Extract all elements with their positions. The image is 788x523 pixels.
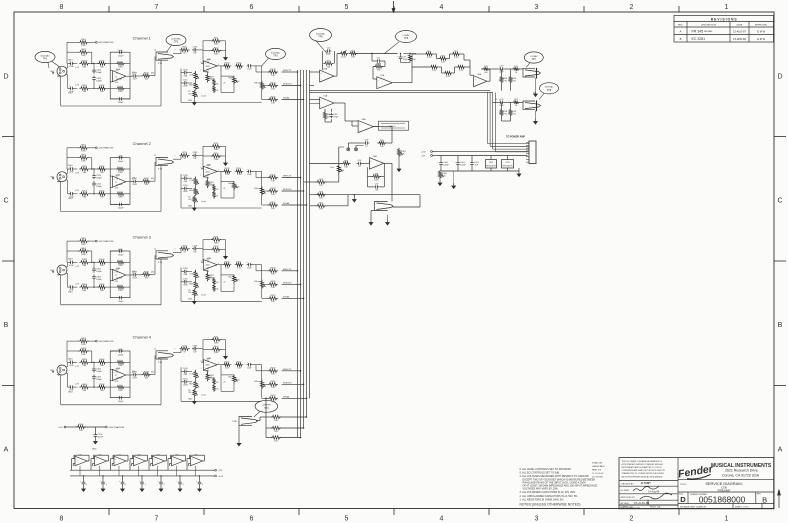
resistor R103	[79, 62, 89, 65]
svg-text:1: 1	[66, 177, 67, 179]
capacitor C103	[93, 68, 95, 70]
resistor R406	[97, 385, 106, 388]
wire	[453, 72, 455, 74]
svg-text:2.2K: 2.2K	[427, 57, 432, 59]
svg-text:Effects: Effects	[255, 81, 261, 84]
svg-text:.1uF: .1uF	[474, 165, 479, 167]
capacitor C408	[192, 348, 194, 350]
wire	[126, 374, 133, 376]
wire	[261, 279, 263, 281]
resistor R205	[97, 167, 106, 170]
svg-text:Level: Level	[201, 201, 206, 203]
wire	[110, 286, 116, 288]
svg-text:10uF: 10uF	[132, 277, 137, 279]
phantom terminal	[95, 147, 97, 149]
svg-text:47pF: 47pF	[326, 54, 331, 56]
svg-text:R404: R404	[82, 384, 88, 386]
resistor R310	[180, 247, 190, 250]
junction	[265, 398, 267, 400]
wire	[67, 157, 79, 159]
resistor R54B	[512, 67, 520, 70]
ground	[94, 438, 96, 441]
svg-text:100: 100	[145, 79, 149, 81]
svg-text:(0V): (0V)	[132, 72, 136, 74]
svg-text:APPROVED BY:: APPROVED BY:	[621, 496, 636, 499]
wire	[66, 173, 67, 175]
wire	[74, 63, 77, 65]
ground	[122, 486, 124, 489]
svg-text:47uF: 47uF	[69, 265, 74, 267]
svg-text:TP8: TP8	[547, 89, 552, 92]
svg-text:6.8K: 6.8K	[81, 161, 86, 163]
wire	[74, 261, 77, 263]
svg-text:GND2: GND2	[68, 391, 73, 393]
svg-text:6.8K: 6.8K	[81, 354, 86, 356]
resistor R55B	[482, 67, 490, 70]
resistor R124	[268, 84, 278, 87]
ground	[193, 398, 195, 401]
svg-text:6.8K: 6.8K	[118, 197, 123, 199]
capacitor C201	[69, 168, 71, 170]
svg-text:HIGH: HIGH	[189, 283, 194, 285]
svg-text:10K: 10K	[271, 88, 275, 90]
svg-text:.0039: .0039	[183, 86, 189, 88]
svg-text:100: 100	[145, 277, 149, 279]
resistor R50	[323, 62, 333, 65]
op-amp U21	[95, 456, 107, 466]
svg-text:R124: R124	[271, 82, 277, 84]
svg-text:PREAMP: PREAMP	[718, 489, 731, 493]
wire	[66, 426, 77, 428]
wire	[181, 271, 182, 273]
svg-text:RELEASE DATE: 28-APR-89: RELEASE DATE: 28-APR-89	[680, 505, 707, 508]
resistor R407	[116, 361, 125, 364]
svg-text:GND1: GND1	[68, 358, 73, 360]
ground	[387, 220, 389, 223]
svg-text:APPROVED: APPROVED	[755, 24, 768, 27]
wire	[195, 71, 197, 73]
wire	[535, 78, 537, 91]
svg-text:Channel 3: Channel 3	[133, 234, 152, 239]
svg-text:100pF: 100pF	[96, 379, 102, 381]
input op-amp box	[110, 158, 130, 205]
svg-text:2: 2	[58, 67, 59, 69]
svg-text:Channel 1: Channel 1	[133, 36, 152, 41]
svg-text:THIS DOCUMENT CONTAINS INFORMA: THIS DOCUMENT CONTAINS INFORMATION OF	[622, 460, 663, 463]
svg-text:1: 1	[725, 4, 729, 11]
svg-text:GND1: GND1	[68, 258, 73, 260]
resistor R312	[211, 248, 221, 251]
pot R100	[438, 170, 441, 179]
input op-amp box	[110, 251, 130, 298]
svg-text:TP2: TP2	[174, 41, 179, 44]
svg-text:2: 2	[201, 175, 202, 177]
resistor R412	[211, 348, 221, 351]
wire	[362, 163, 369, 165]
svg-text:+48V PHANTOM: +48V PHANTOM	[98, 41, 114, 44]
svg-text:10uF: 10uF	[247, 174, 252, 176]
pot R216 HIGH	[194, 187, 197, 196]
svg-text:10K: 10K	[271, 287, 275, 289]
svg-text:6.8K: 6.8K	[118, 66, 123, 68]
svg-text:TP5: TP5	[318, 36, 323, 39]
svg-text:Rev: Rev	[331, 167, 334, 169]
svg-text:4: 4	[440, 4, 444, 11]
svg-text:10K: 10K	[188, 292, 192, 294]
svg-text:680: 680	[83, 265, 87, 267]
svg-text:(0V): (0V)	[132, 271, 136, 273]
svg-text:R202: R202	[81, 155, 87, 157]
svg-text:R201: R201	[81, 145, 87, 147]
svg-text:+: +	[76, 459, 78, 461]
svg-text:.1: .1	[125, 484, 128, 486]
svg-text:C110: C110	[183, 80, 189, 82]
resistor R202	[78, 156, 88, 159]
svg-text:100pF: 100pF	[96, 271, 102, 273]
svg-text:(+7V): (+7V)	[75, 266, 79, 268]
power connector P1	[529, 141, 536, 164]
svg-text:1uF: 1uF	[193, 53, 197, 55]
wire	[72, 458, 76, 460]
capacitor C104	[93, 76, 95, 78]
wire	[93, 64, 95, 69]
svg-text:SHEET: 1 OF 2: SHEET: 1 OF 2	[735, 506, 750, 508]
wire	[252, 65, 261, 67]
wire	[202, 240, 204, 249]
resistor R405	[97, 361, 106, 364]
svg-text:R110: R110	[182, 47, 188, 49]
wire	[181, 102, 262, 104]
capacitor C306	[118, 297, 120, 299]
capacitor C302	[69, 286, 71, 288]
wire	[221, 274, 234, 276]
resistor R56	[438, 57, 447, 60]
pot R316 HIGH	[194, 280, 197, 289]
resistor R105	[97, 62, 106, 65]
capacitor C109	[182, 72, 184, 74]
svg-text:Fender: Fender	[677, 463, 714, 480]
op-amp U4B	[204, 360, 218, 370]
wire	[252, 264, 261, 266]
svg-text:.001: .001	[375, 190, 380, 192]
svg-text:SIGNAL GND: SIGNAL GND	[592, 462, 603, 465]
svg-text:R311: R311	[214, 236, 220, 238]
wire	[262, 297, 270, 299]
resistor R411	[211, 338, 221, 341]
wire	[173, 158, 181, 160]
svg-text:13-AUG-87: 13-AUG-87	[733, 29, 747, 33]
junction dots	[93, 63, 94, 64]
svg-text:220K: 220K	[214, 252, 219, 254]
pot R221 Mid	[232, 181, 235, 190]
insert jack J1B	[156, 52, 168, 60]
svg-text:2: 2	[201, 368, 202, 370]
output jack J14	[375, 202, 388, 211]
wire	[126, 181, 133, 183]
op-amp U6A	[474, 76, 487, 87]
resistor R303	[79, 261, 89, 264]
svg-text:R310: R310	[182, 246, 188, 248]
capacitor C125	[179, 480, 181, 482]
ground	[453, 183, 455, 186]
svg-text:R61: R61	[514, 99, 519, 101]
svg-text:+: +	[192, 459, 194, 461]
resistor R219	[212, 190, 215, 198]
svg-text:100: 100	[145, 377, 149, 379]
svg-text:1uF: 1uF	[193, 158, 197, 160]
svg-text:1K: 1K	[216, 90, 219, 92]
svg-text:100pF: 100pF	[96, 371, 102, 373]
svg-text:3: 3	[201, 361, 202, 363]
svg-text:C409: C409	[183, 368, 189, 370]
wire	[252, 364, 261, 366]
svg-text:100pF: 100pF	[118, 354, 124, 356]
svg-text:+: +	[92, 434, 94, 436]
svg-text:1K: 1K	[183, 252, 186, 254]
junction dots	[93, 262, 94, 263]
headphone jack J9	[523, 68, 535, 77]
svg-text:R101: R101	[81, 39, 87, 41]
svg-text:C208: C208	[193, 152, 199, 154]
svg-text:100pF: 100pF	[118, 208, 124, 210]
power terminals	[431, 151, 433, 153]
wire	[151, 75, 155, 77]
resistor R61B	[512, 101, 520, 104]
svg-text:+48V PHANTOM: +48V PHANTOM	[98, 240, 114, 243]
wire	[262, 204, 270, 206]
junction dots	[93, 362, 94, 363]
resistor R408	[116, 385, 125, 388]
svg-text:L6: L6	[154, 155, 156, 157]
capacitor C303	[93, 267, 95, 269]
monitor sum line	[310, 194, 421, 196]
svg-text:CHASSIS BACK: CHASSIS BACK	[592, 465, 605, 468]
voltage regulator U10	[486, 160, 497, 169]
svg-text:Mid: Mid	[229, 276, 232, 278]
svg-text:1. ALL RESISTORS IN OHMS 1/4W,: 1. ALL RESISTORS IN OHMS 1/4W, 5%.	[520, 498, 565, 501]
wire	[187, 458, 191, 460]
svg-text:LOW: LOW	[190, 373, 194, 375]
svg-text:3: 3	[58, 275, 59, 277]
capacitor C124	[160, 480, 162, 482]
pot R222 Effects	[260, 186, 263, 195]
wire	[356, 53, 398, 55]
svg-text:1.5K: 1.5K	[225, 69, 230, 71]
svg-text:Corona, CA 91720 USA: Corona, CA 91720 USA	[722, 474, 760, 478]
svg-text:Level: Level	[201, 96, 206, 98]
svg-text:270: 270	[504, 80, 508, 82]
svg-text:TITLE:: TITLE:	[680, 484, 687, 486]
svg-text:6.8K: 6.8K	[118, 365, 123, 367]
capacitor C202	[69, 193, 71, 195]
ground	[199, 486, 201, 489]
wire	[107, 168, 111, 170]
svg-text:VOLTAGES MAY VARY BY 20%.: VOLTAGES MAY VARY BY 20%.	[523, 488, 559, 491]
phantom terminal	[95, 240, 97, 242]
capacitor C121	[102, 480, 104, 482]
svg-text:3: 3	[201, 62, 202, 64]
capacitor C407	[132, 374, 134, 376]
svg-text:+15V: +15V	[421, 152, 426, 154]
wire	[107, 63, 111, 65]
wire	[90, 361, 99, 363]
svg-text:.1: .1	[182, 484, 185, 486]
svg-text:TP4: TP4	[264, 407, 269, 410]
svg-text:R203: R203	[82, 166, 88, 168]
svg-text:+48V PHANTOM: +48V PHANTOM	[108, 426, 124, 429]
svg-text:220K: 220K	[214, 242, 219, 244]
svg-text:100pF: 100pF	[96, 178, 102, 180]
phantom terminal	[64, 426, 66, 428]
resistor R104	[79, 87, 89, 90]
resistor R208	[116, 192, 125, 195]
resistor R305	[97, 261, 106, 264]
wire	[90, 261, 99, 263]
insert jack J4B	[156, 351, 168, 359]
wire	[74, 386, 77, 388]
capacitor C204	[93, 181, 95, 183]
svg-text:100uF: 100uF	[460, 165, 466, 167]
insert jack J3B	[156, 251, 168, 259]
svg-text:.22: .22	[223, 188, 225, 190]
svg-text:47uF: 47uF	[69, 365, 74, 367]
ground	[193, 298, 195, 301]
ground	[439, 180, 441, 183]
svg-text:A: A	[4, 447, 9, 454]
resistor R209	[142, 180, 151, 183]
wire	[110, 193, 116, 195]
svg-text:1K: 1K	[216, 282, 219, 284]
capacitor C406	[118, 397, 120, 399]
svg-text:R213: R213	[225, 168, 231, 170]
svg-text:6.8K: 6.8K	[81, 151, 86, 153]
svg-text:.1: .1	[105, 484, 108, 486]
headphone jack J10	[523, 101, 535, 110]
resistor R52	[349, 52, 358, 55]
bus junctions	[282, 71, 298, 73]
wire	[110, 261, 116, 263]
capacitor C203	[93, 174, 95, 176]
svg-text:100uF: 100uF	[98, 437, 104, 439]
pot R420 Level	[193, 388, 196, 397]
resistor R53	[374, 65, 383, 68]
wire	[519, 101, 523, 103]
resistor R65	[342, 162, 351, 165]
svg-text:10K: 10K	[271, 75, 275, 77]
svg-text:R304: R304	[82, 284, 88, 286]
wire	[261, 186, 263, 188]
svg-text:R323: R323	[271, 268, 277, 270]
svg-text:3: 3	[58, 182, 59, 184]
resistor R425	[268, 397, 278, 400]
svg-text:13-APR-89: 13-APR-89	[733, 37, 746, 41]
svg-text:47uF: 47uF	[499, 72, 504, 74]
resistor R112	[211, 49, 221, 52]
svg-text:R55: R55	[484, 66, 489, 68]
svg-text:PANEL 3YR: PANEL 3YR	[592, 469, 602, 472]
svg-text:10: 10	[515, 72, 518, 74]
phantom out terminal	[105, 426, 107, 428]
bus wire	[310, 91, 493, 93]
svg-text:GND: GND	[188, 299, 193, 301]
svg-text:C32: C32	[209, 277, 212, 279]
svg-text:(0V): (0V)	[151, 73, 155, 75]
capacitor C405	[118, 350, 120, 352]
svg-text:47pF: 47pF	[334, 117, 339, 119]
svg-text:TO POWER AMP: TO POWER AMP	[506, 135, 525, 138]
power rail -	[70, 475, 214, 477]
svg-text:10uF: 10uF	[247, 367, 252, 369]
capacitor C110	[94, 433, 96, 435]
op-amp U25	[172, 456, 184, 466]
wire	[504, 101, 512, 103]
svg-text:10uF: 10uF	[247, 267, 252, 269]
wire	[199, 476, 201, 480]
capacitor C410	[182, 381, 184, 383]
wire	[448, 58, 450, 60]
resistor R67	[316, 180, 326, 183]
svg-text:R110: R110	[79, 424, 85, 426]
svg-text:22K: 22K	[327, 66, 331, 68]
svg-text:Channel 4: Channel 4	[133, 334, 152, 339]
svg-text:6: 6	[250, 516, 254, 523]
XLR input J1	[57, 66, 67, 76]
resistor R118	[212, 78, 215, 86]
svg-text:U8B: U8B	[373, 156, 378, 158]
svg-text:T: T	[175, 349, 176, 351]
wire	[488, 143, 530, 145]
svg-text:6.8K: 6.8K	[81, 344, 86, 346]
svg-text:RELEASE: RELEASE	[704, 30, 713, 33]
svg-text:GND1: GND1	[68, 60, 73, 62]
svg-text:10K: 10K	[344, 166, 348, 168]
wire	[111, 458, 115, 460]
resistor R57A	[451, 52, 460, 55]
svg-text:100K: 100K	[374, 179, 379, 181]
wire	[90, 286, 99, 288]
resistor R204	[79, 192, 89, 195]
svg-text:10K: 10K	[412, 59, 416, 61]
capacitor C209	[182, 177, 184, 179]
svg-text:100pF: 100pF	[118, 56, 124, 58]
wire	[90, 63, 99, 65]
svg-text:R55: R55	[427, 51, 432, 53]
svg-text:.0039: .0039	[183, 284, 189, 286]
svg-text:27K: 27K	[319, 198, 323, 200]
svg-text:680: 680	[100, 390, 104, 392]
svg-text:C108: C108	[193, 47, 199, 49]
wire	[74, 361, 77, 363]
wire	[110, 297, 117, 299]
svg-text:8: 8	[60, 516, 64, 523]
wire	[501, 69, 503, 75]
svg-text:3. ALL POLARIZED CAPACITORS IN: 3. ALL POLARIZED CAPACITORS IN uF, 50V, …	[520, 491, 577, 494]
wire	[504, 68, 512, 70]
svg-text:-15V: -15V	[115, 281, 119, 283]
test point TP4	[255, 400, 278, 412]
svg-text:R 1/4: R 1/4	[158, 362, 162, 364]
pot R415 LOW	[194, 370, 197, 379]
svg-text:R405: R405	[100, 359, 106, 361]
wire	[372, 60, 376, 62]
svg-text:.0039: .0039	[183, 191, 189, 193]
ground	[102, 486, 104, 489]
wire	[85, 426, 105, 428]
wire	[440, 156, 442, 161]
svg-text:+: +	[475, 78, 477, 80]
svg-text:B.YAMT: B.YAMT	[641, 481, 651, 485]
svg-text:1128: 1128	[118, 278, 122, 280]
